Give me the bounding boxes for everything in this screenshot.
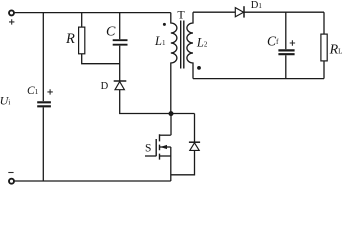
wire: top rail from + terminal to transformer primary bbox=[15, 12, 171, 14]
capacitor C bbox=[113, 40, 128, 45]
diode D bbox=[114, 81, 127, 90]
svg-text:Cf: Cf bbox=[267, 33, 279, 48]
polarity label + (input) bbox=[9, 19, 14, 24]
svg-text:T: T bbox=[177, 7, 185, 21]
wire: C top lead bbox=[119, 13, 121, 40]
transformer T core bbox=[181, 21, 184, 69]
svg-text:C1: C1 bbox=[27, 85, 39, 97]
inductor L1 primary winding bbox=[171, 13, 177, 114]
svg-text:Ui: Ui bbox=[0, 93, 10, 107]
wire: Cf top lead bbox=[285, 12, 287, 49]
polarity label + (C1) bbox=[47, 89, 52, 94]
svg-text:C: C bbox=[106, 25, 116, 40]
resistor RL bbox=[321, 34, 327, 61]
resistor R bbox=[79, 27, 85, 54]
input terminal + bbox=[9, 10, 14, 15]
transistor S (MOSFET) bbox=[145, 134, 171, 159]
svg-text:L2: L2 bbox=[196, 36, 208, 50]
junction dot: drain node bbox=[169, 111, 174, 116]
polarity label + (Cf) bbox=[290, 40, 295, 45]
inductor L2 secondary winding bbox=[187, 12, 193, 78]
wire: C1 top lead bbox=[42, 13, 44, 102]
polarity label - (input) bbox=[8, 172, 13, 174]
svg-text:S: S bbox=[145, 143, 151, 155]
svg-text:L1: L1 bbox=[154, 34, 166, 48]
svg-text:D: D bbox=[101, 81, 109, 92]
wire: output bottom rail bbox=[193, 78, 324, 80]
wire: Cf bottom lead bbox=[285, 55, 287, 78]
diode D1 bbox=[235, 6, 244, 17]
capacitor Cf bbox=[278, 50, 294, 54]
wire: C bottom lead down to diode D bbox=[119, 46, 121, 81]
wire: MOSFET source to bottom rail bbox=[170, 156, 172, 181]
polarity dot L1 bbox=[163, 23, 166, 26]
wire: secondary top rail to D1 anode bbox=[193, 11, 235, 13]
wire: R bottom lead and return to clamp node bbox=[82, 54, 120, 64]
polarity dot L2 bbox=[197, 66, 201, 70]
capacitor C1 bbox=[37, 102, 51, 106]
wire: C1 bottom lead bbox=[42, 107, 44, 181]
svg-text:RL: RL bbox=[329, 42, 342, 57]
wire: drain node to MOSFET drain bbox=[170, 114, 172, 136]
wire: RL bottom lead bbox=[323, 61, 325, 79]
wire: D anode to drain node and snubber corner bbox=[120, 90, 195, 114]
wire: RL top lead bbox=[323, 12, 325, 34]
svg-text:D1: D1 bbox=[251, 0, 263, 11]
input terminal - bbox=[9, 179, 14, 184]
svg-text:R: R bbox=[65, 31, 75, 47]
diode across S (freewheel) bbox=[171, 114, 200, 175]
wire: D1 cathode to load bbox=[244, 11, 324, 13]
wire: R top lead bbox=[81, 13, 83, 28]
wire: bottom rail from - terminal to MOSFET source bbox=[15, 180, 171, 182]
